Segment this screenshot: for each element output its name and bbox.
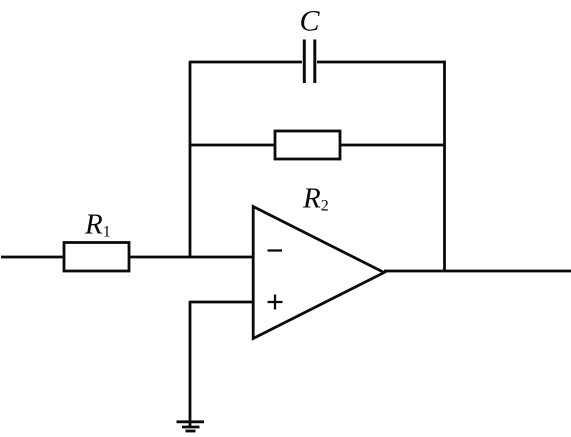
wire: right feedback vertical drop to output node (443, 61, 446, 271)
wire: non-inverting node down to ground (189, 301, 192, 427)
wire: R1 to inverting input of op-amp (through feedback junction) (129, 256, 253, 259)
wire: top feedback rail, left segment to capacitor (189, 61, 302, 64)
op-amp non-inverting input marker (+) (268, 301, 283, 303)
op-amp U1 (253, 207, 384, 339)
resistor R2 (feedback box) (275, 131, 340, 159)
resistor R1 (64, 243, 129, 272)
svg-text:C: C (300, 4, 321, 37)
wire: middle feedback rail, right segment from R2 (340, 144, 445, 147)
wire: top feedback rail, right segment from capacitor (317, 61, 446, 64)
ground (177, 420, 205, 423)
capacitor C (plates) (303, 40, 306, 84)
op-amp inverting input marker (−) (268, 249, 283, 251)
wire: middle feedback rail, left segment to R2 (190, 144, 275, 147)
wire: left feedback vertical riser (189, 62, 192, 258)
wire: output from op-amp apex to right edge (384, 270, 571, 273)
wire: input lead from left edge to R1 (1, 256, 64, 259)
wire: non-inverting input horizontal (190, 301, 253, 304)
